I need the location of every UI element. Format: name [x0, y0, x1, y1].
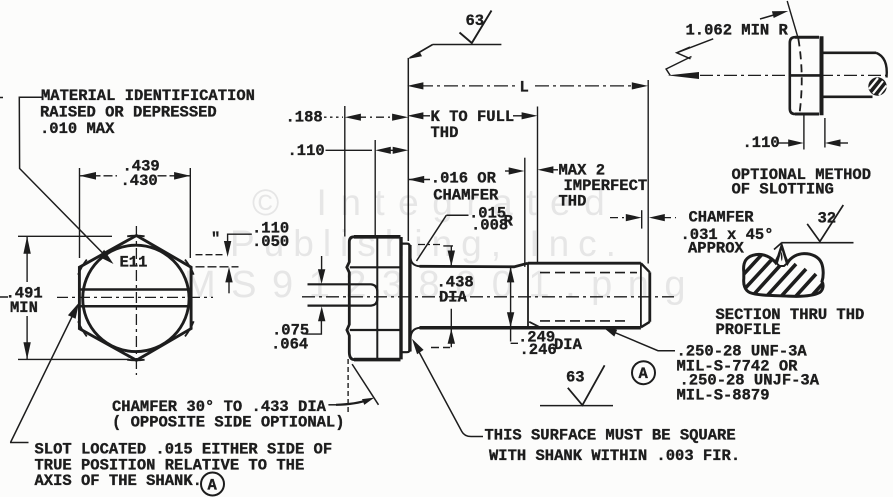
- svg-text:R: R: [504, 213, 514, 231]
- leader .250-28 thread spec: [606, 329, 675, 351]
- svg-text:DIA: DIA: [554, 336, 583, 354]
- svg-text:.110: .110: [288, 142, 325, 160]
- extension line chamfer start: [524, 158, 526, 267]
- spike clearing: [777, 247, 787, 267]
- facet line horizontal lower: [350, 329, 401, 331]
- svg-text:″: ″: [211, 230, 220, 248]
- optional shank: [824, 53, 877, 97]
- hatched break blob: [868, 77, 886, 95]
- lower ref dash line: [196, 266, 239, 268]
- dim .439/.430 dimension line: [80, 175, 191, 177]
- svg-text:.010 MAX: .010 MAX: [40, 120, 115, 138]
- thread root line bottom (dashed): [540, 320, 630, 322]
- svg-text:PROFILE: PROFILE: [716, 321, 781, 339]
- thread runout diagonal: [529, 322, 540, 327]
- optional head outline: [795, 37, 819, 114]
- svg-text:MIL-S-8879: MIL-S-8879: [677, 387, 770, 405]
- dim K to full thd: [407, 112, 423, 119]
- thread top edge: [528, 262, 641, 265]
- washer flange right edge: [408, 245, 411, 352]
- svg-text:AXIS OF THE SHANK.: AXIS OF THE SHANK.: [35, 472, 202, 490]
- optional head right face: [820, 36, 824, 115]
- svg-text:( OPPOSITE SIDE OPTIONAL): ( OPPOSITE SIDE OPTIONAL): [112, 414, 345, 432]
- svg-text:OF SLOTTING: OF SLOTTING: [732, 181, 834, 199]
- bottom edge shank+thread: [420, 326, 641, 330]
- washer flange left edge: [399, 237, 402, 359]
- upper ref dash line: [196, 254, 225, 256]
- svg-text:32: 32: [818, 210, 837, 228]
- full thread vertical: [527, 263, 529, 327]
- svg-text:A: A: [208, 477, 218, 495]
- vertex chamfer arcs: [78, 236, 194, 361]
- radius leader zigzag: [666, 39, 713, 76]
- svg-text:THD: THD: [559, 193, 587, 211]
- thread end vertical: [640, 263, 642, 327]
- svg-text:.110: .110: [743, 134, 780, 152]
- svg-text:THD: THD: [431, 124, 459, 142]
- arrowhead material leader: [99, 250, 114, 264]
- svg-text:.430: .430: [121, 172, 158, 190]
- main centerline: [302, 296, 674, 298]
- dim .439/.430 extension lines: [80, 168, 191, 258]
- arrow left .439: [80, 172, 97, 180]
- facet line horizontal upper: [350, 266, 401, 268]
- arrow right .439: [174, 172, 190, 180]
- radius leader to arc: [760, 12, 784, 19]
- arrow up to lower ref line: [228, 271, 230, 293]
- extension line full thread: [537, 107, 539, 264]
- svg-text:DIA: DIA: [439, 289, 468, 307]
- slot arc (dashed): [798, 39, 801, 114]
- svg-text:E11: E11: [120, 254, 148, 272]
- inscribed chamfer circle: [83, 245, 189, 351]
- arrow down to upper ref line: [224, 241, 231, 257]
- thread root line top (dashed): [540, 272, 637, 274]
- horizontal centerline: [57, 296, 213, 298]
- end chamfer bottom: [641, 322, 650, 328]
- arc extension above head: [787, 1, 797, 36]
- svg-text:CHAMFER: CHAMFER: [689, 209, 755, 227]
- svg-text:.050: .050: [252, 233, 289, 251]
- dim max 2 imperfect thd: [538, 166, 554, 173]
- bracket .110/.050: [228, 234, 252, 251]
- vertical centerline: [135, 226, 137, 375]
- chamfer 30 leader cluster: [328, 404, 337, 406]
- svg-text:.064: .064: [271, 336, 308, 354]
- centerline optional view: [700, 74, 886, 76]
- dim .491 dimension line: [26, 236, 28, 359]
- bearing face extension line: [407, 58, 409, 241]
- dim .249/.246 DIA: [511, 268, 518, 343]
- datum circle A (right): [632, 361, 655, 384]
- leader from slot note: [10, 308, 77, 443]
- svg-text:MATERIAL IDENTIFICATION: MATERIAL IDENTIFICATION: [41, 87, 255, 105]
- shank end break curve: [876, 53, 887, 78]
- svg-text:RAISED OR DEPRESSED: RAISED OR DEPRESSED: [40, 104, 217, 122]
- extension lines bolt end: [641, 210, 643, 228]
- svg-text:MIN: MIN: [10, 299, 38, 317]
- scan artifact tick left edge: [0, 98, 8, 298]
- svg-text:THIS SURFACE MUST BE SQUARE: THIS SURFACE MUST BE SQUARE: [485, 427, 736, 445]
- end chamfer top: [641, 263, 650, 272]
- bolt end face: [648, 272, 651, 322]
- dim .438 DIA: [418, 244, 440, 246]
- leader from material note to hex: [19, 97, 110, 260]
- dim L: [419, 85, 637, 87]
- spike inner streak: [781, 252, 783, 262]
- svg-text:WITH SHANK WITHIN .003 FIR.: WITH SHANK WITHIN .003 FIR.: [489, 447, 740, 465]
- flange bottom edge: [401, 349, 410, 352]
- fillet bottom: [411, 328, 421, 338]
- slot edge line (horizontal): [790, 74, 824, 77]
- arrow up .491: [23, 236, 30, 254]
- svg-text:.016 OR: .016 OR: [431, 170, 497, 188]
- datum circle A (bottom): [201, 473, 224, 496]
- shank top edge: [420, 263, 529, 267]
- leader .015R/.008R fillet radius: [417, 215, 469, 261]
- head outline side view: [354, 237, 401, 360]
- arrowhead slot leader: [68, 303, 79, 319]
- fillet top: [411, 258, 421, 267]
- short dash line right of flange arrow: [431, 347, 450, 349]
- arrow down .491: [23, 342, 30, 359]
- hex head outline: [79, 236, 191, 361]
- facet line vertical: [376, 238, 378, 360]
- slot across head (front view): [79, 290, 191, 307]
- svg-text:A: A: [639, 365, 649, 383]
- leader this-surface note: [415, 344, 484, 437]
- svg-text:63: 63: [566, 369, 585, 387]
- svg-text:L: L: [520, 79, 529, 97]
- chamfer arrows at bolt end: [610, 217, 624, 219]
- flange top edge: [401, 244, 410, 247]
- svg-text:1.062 MIN R: 1.062 MIN R: [686, 22, 789, 40]
- svg-text:CHAMFER: CHAMFER: [433, 187, 499, 205]
- svg-text:APPROX: APPROX: [688, 240, 745, 258]
- dim .491 extension lines: [18, 236, 129, 359]
- svg-text:.188: .188: [286, 109, 323, 127]
- svg-text:.246: .246: [520, 341, 557, 359]
- slot notch side view: [308, 284, 378, 305]
